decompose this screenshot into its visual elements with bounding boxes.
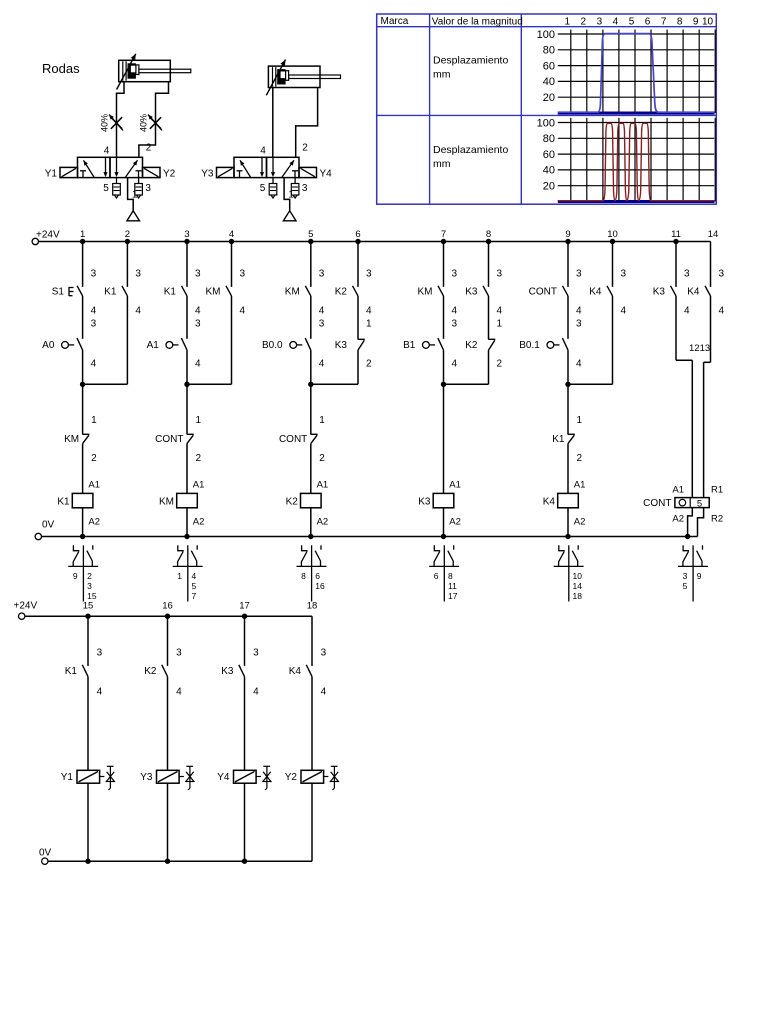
svg-text:4: 4: [240, 306, 246, 317]
svg-text:CONT: CONT: [155, 434, 183, 445]
svg-text:CONT: CONT: [643, 498, 671, 509]
svg-text:3: 3: [452, 269, 458, 280]
svg-text:1: 1: [497, 318, 503, 329]
rung numbers 15-18: [83, 601, 318, 612]
wire parallel branch join rung 6 to rung 5: [308, 350, 358, 387]
svg-text:0V: 0V: [39, 848, 52, 859]
table row divider: [377, 114, 717, 116]
wire cylinder1 right port to throttle V1b to valve port 2: [139, 82, 169, 158]
svg-text:5: 5: [308, 229, 313, 240]
5/2 solenoid valve 1 with solenoids Y1/Y2: [45, 157, 176, 179]
pneumatic cylinder 2 (right): [268, 66, 340, 87]
svg-text:Y2: Y2: [285, 772, 298, 783]
contact cross-reference for K2: [297, 545, 327, 601]
wire contact K1 to solenoid Y1: [87, 677, 89, 771]
svg-text:R2: R2: [711, 514, 723, 525]
svg-text:Y1: Y1: [61, 772, 74, 783]
svg-text:A1: A1: [449, 480, 461, 491]
svg-text:1: 1: [577, 415, 583, 426]
svg-text:40: 40: [543, 76, 555, 88]
relay contact CONT (rung 9, NO) with pins 3/4: [529, 242, 582, 317]
wire CONT R2 to 0V rail: [698, 508, 704, 537]
svg-text:K1: K1: [57, 497, 70, 508]
svg-text:3: 3: [240, 269, 246, 280]
svg-text:B0.1: B0.1: [519, 340, 540, 351]
svg-text:+24V: +24V: [36, 230, 60, 241]
relay contact K2 (NC) with pins 1/2: [465, 296, 502, 369]
svg-text:1: 1: [565, 16, 571, 27]
cylinder 1 stroke arrow: [117, 54, 136, 90]
wire rung 11 (K3) down to CONT coil A1: [676, 296, 692, 498]
wire cylinder2 right port to valve2 port 2: [296, 88, 318, 158]
svg-text:3: 3: [576, 318, 582, 329]
svg-text:10: 10: [702, 16, 714, 27]
svg-text:Marca: Marca: [381, 16, 409, 27]
svg-text:3: 3: [321, 648, 327, 659]
valve 1 ports 4/2/5/1/3, silencers and air supply: [103, 143, 152, 221]
svg-text:3: 3: [452, 318, 458, 329]
svg-text:9: 9: [565, 229, 570, 240]
svg-text:4: 4: [91, 306, 97, 317]
svg-text:4: 4: [719, 306, 725, 317]
relay contact KM (NC, series) with pins 1/2: [64, 384, 97, 493]
svg-text:A1: A1: [672, 484, 684, 495]
svg-text:3: 3: [97, 648, 103, 659]
svg-text:3: 3: [576, 269, 582, 280]
wire parallel branch join rung 8 to rung 7: [441, 350, 489, 387]
svg-text:4: 4: [497, 306, 503, 317]
chart time axis numbers 1-10: [565, 16, 714, 27]
proximity sensor contact B0.0 (NO) with pins 3/4: [262, 296, 325, 369]
table column divider 2: [520, 14, 522, 204]
contact cross-reference for K1: [68, 545, 98, 601]
chart 2 displacement curve (dark red oscillation): [558, 123, 714, 200]
svg-text:K4: K4: [289, 666, 302, 677]
svg-text:4: 4: [195, 358, 201, 369]
svg-text:1: 1: [366, 318, 372, 329]
proximity sensor contact B1 (NO) with pins 3/4: [403, 296, 457, 369]
rung numbers 1-11,14: [80, 229, 718, 240]
svg-text:18: 18: [307, 601, 318, 612]
svg-text:K2: K2: [286, 497, 299, 508]
svg-text:80: 80: [543, 133, 555, 145]
svg-text:K1: K1: [104, 287, 117, 298]
svg-text:9: 9: [73, 571, 78, 581]
svg-text:1: 1: [319, 415, 325, 426]
relay coil KM with pins A1/A2: [159, 480, 204, 537]
svg-text:A2: A2: [672, 514, 684, 525]
svg-text:2: 2: [91, 453, 97, 464]
table header text Valor de la magnitud: [432, 16, 523, 27]
svg-text:3: 3: [597, 16, 603, 27]
svg-text:K4: K4: [543, 497, 556, 508]
relay contact CONT (NC, series) with pins 1/2: [155, 384, 201, 493]
+24V supply rail (ladder 2): [14, 601, 313, 620]
svg-text:20: 20: [543, 92, 555, 104]
svg-text:7: 7: [661, 16, 667, 27]
svg-text:4: 4: [253, 686, 259, 697]
svg-text:Desplazamiento: Desplazamiento: [433, 55, 508, 67]
svg-text:5: 5: [103, 183, 109, 194]
relay contact K1 (NC, series) with pins 1/2: [552, 384, 582, 493]
chart 1 grid and axis labels: [537, 29, 716, 113]
svg-text:4: 4: [452, 306, 458, 317]
svg-text:4: 4: [366, 306, 372, 317]
svg-text:K4: K4: [687, 287, 700, 298]
throttle valve V1b 40% (right): [139, 114, 162, 132]
svg-text:4: 4: [613, 16, 619, 27]
svg-text:2: 2: [87, 571, 92, 581]
table header divider: [377, 26, 717, 28]
svg-text:3: 3: [366, 269, 372, 280]
relay contact K3 (NC) with pins 1/2: [335, 296, 372, 369]
proximity sensor contact B0.1 (NO) with pins 3/4: [519, 296, 582, 369]
relay contact K1 (rung 15, NO) with pins 3/4: [65, 616, 103, 697]
svg-text:3: 3: [621, 269, 627, 280]
svg-text:Y2: Y2: [163, 168, 176, 179]
svg-text:KM: KM: [285, 287, 300, 298]
svg-text:2: 2: [366, 358, 372, 369]
svg-text:17: 17: [448, 591, 458, 601]
solenoid coil Y4 with valve cross-reference: [217, 766, 271, 790]
svg-text:Y3: Y3: [201, 168, 214, 179]
svg-text:A2: A2: [574, 516, 586, 527]
svg-text:6: 6: [355, 229, 360, 240]
svg-text:S1: S1: [52, 287, 65, 298]
svg-text:K2: K2: [335, 287, 348, 298]
svg-text:60: 60: [543, 149, 555, 161]
+24V supply rail (ladder 1): [32, 230, 710, 245]
proximity sensor contact A1 (NO) with pins 3/4: [147, 296, 201, 369]
svg-text:3: 3: [184, 229, 189, 240]
svg-text:100: 100: [537, 29, 555, 41]
svg-text:3: 3: [135, 269, 141, 280]
counter coil CONT with pins A1/R1/A2/R2: [643, 484, 723, 524]
svg-text:40%: 40%: [100, 114, 110, 132]
svg-text:10: 10: [573, 571, 583, 581]
relay contact K2 (rung 6, NO) with pins 3/4: [335, 242, 372, 317]
svg-text:Y4: Y4: [217, 772, 230, 783]
contact cross-reference for K3: [429, 545, 459, 601]
svg-text:2: 2: [319, 453, 325, 464]
svg-text:3: 3: [319, 269, 325, 280]
svg-text:4: 4: [195, 306, 201, 317]
table column divider 1: [429, 14, 431, 204]
relay contact K1 (rung 2, NO) with pins 3/4: [104, 242, 141, 317]
valve 2 ports 4/2/5/1/3, silencers and air supply: [260, 143, 309, 221]
wire cylinder2 left port to valve2 port 4: [272, 88, 274, 158]
svg-text:3: 3: [91, 318, 97, 329]
relay contact K3 (rung 17, NO) with pins 3/4: [221, 616, 259, 697]
relay coil K1 with pins A1/A2: [57, 480, 100, 537]
svg-text:8: 8: [486, 229, 491, 240]
relay coil K4 with pins A1/A2: [543, 480, 586, 537]
svg-text:KM: KM: [159, 497, 174, 508]
svg-text:3: 3: [719, 269, 725, 280]
svg-text:17: 17: [239, 601, 250, 612]
svg-text:3: 3: [683, 571, 688, 581]
svg-text:3: 3: [145, 183, 151, 194]
svg-text:4: 4: [452, 358, 458, 369]
table row2 text Desplazamiento mm: [433, 144, 508, 170]
svg-text:3: 3: [195, 318, 201, 329]
relay contact KM (rung 4, NO) with pins 3/4: [206, 242, 246, 317]
svg-text:4: 4: [192, 571, 197, 581]
chart 1 displacement curve (blue trapezoid): [558, 34, 714, 113]
svg-text:A1: A1: [574, 480, 586, 491]
wire parallel branch join rung 2 to rung 1: [80, 296, 128, 387]
svg-text:4: 4: [576, 306, 582, 317]
wire contact K4 to solenoid Y2: [311, 677, 313, 771]
svg-text:4: 4: [97, 686, 103, 697]
svg-text:CONT: CONT: [279, 434, 307, 445]
svg-text:4: 4: [321, 686, 327, 697]
svg-text:4: 4: [260, 146, 266, 157]
svg-text:Y4: Y4: [320, 168, 333, 179]
svg-text:40: 40: [543, 165, 555, 177]
svg-text:Y1: Y1: [45, 168, 58, 179]
relay contact K3 (rung 11, NO) with pins 3/4: [653, 242, 690, 317]
svg-text:6: 6: [434, 571, 439, 581]
svg-text:100: 100: [537, 117, 555, 129]
svg-text:60: 60: [543, 60, 555, 72]
svg-text:R1: R1: [711, 484, 723, 495]
svg-text:1: 1: [91, 415, 97, 426]
svg-text:mm: mm: [433, 69, 451, 81]
svg-text:mm: mm: [433, 158, 451, 170]
svg-text:2: 2: [196, 453, 202, 464]
relay contact K4 (rung 14, NO) with pins 3/4: [687, 242, 724, 317]
svg-text:9: 9: [697, 571, 702, 581]
0V rail junction dots ladder 1: [80, 534, 690, 539]
svg-text:3: 3: [319, 318, 325, 329]
relay contact KM (rung 5, NO) with pins 3/4: [285, 242, 325, 317]
pushbutton contact S1 (rung 1, NO) with pins 3/4: [52, 242, 97, 317]
contact cross-reference for CONT: [678, 545, 708, 601]
cylinder 2 stroke arrow: [266, 60, 285, 96]
svg-text:3: 3: [253, 648, 259, 659]
svg-text:18: 18: [573, 591, 583, 601]
svg-text:K3: K3: [465, 287, 478, 298]
svg-text:2: 2: [581, 16, 587, 27]
wire solenoid Y3 to 0V rail: [167, 783, 169, 861]
svg-text:+24V: +24V: [14, 601, 38, 612]
svg-text:4: 4: [576, 358, 582, 369]
svg-text:1: 1: [177, 571, 182, 581]
svg-text:A2: A2: [88, 516, 100, 527]
wire contact K2 to solenoid Y3: [167, 677, 169, 771]
svg-text:3: 3: [176, 648, 182, 659]
table outer border: [377, 14, 717, 204]
svg-text:4: 4: [621, 306, 627, 317]
wire solenoid Y1 to 0V rail: [87, 783, 89, 861]
svg-text:K2: K2: [144, 666, 157, 677]
wire parallel branch join rung 4 to rung 3: [184, 296, 231, 387]
proximity sensor contact A0 (NO) with pins 3/4: [42, 296, 96, 369]
table row1 text Desplazamiento mm: [433, 55, 508, 81]
svg-text:2: 2: [125, 229, 130, 240]
wire rung 7 junction to coil K3: [443, 384, 445, 493]
svg-text:6: 6: [315, 571, 320, 581]
label Rodas: [42, 61, 80, 76]
relay contact K4 (rung 18, NO) with pins 3/4: [289, 616, 327, 697]
0V return rail (ladder 2): [39, 848, 312, 865]
relay coil K2 with pins A1/A2: [286, 480, 329, 537]
svg-text:1213: 1213: [689, 343, 710, 354]
relay contact K4 (rung 10, NO) with pins 3/4: [589, 242, 626, 317]
table header text Marca: [381, 16, 409, 27]
svg-text:3: 3: [497, 269, 503, 280]
pneumatic cylinder 1 (Rodas, left): [119, 60, 191, 81]
svg-text:7: 7: [192, 591, 197, 601]
contact cross-reference for KM: [173, 545, 203, 601]
svg-text:CONT: CONT: [529, 287, 557, 298]
svg-text:9: 9: [693, 16, 699, 27]
chart 2 zero baseline: [558, 200, 715, 203]
svg-text:3: 3: [302, 183, 308, 194]
node labels 12 13: [689, 343, 710, 354]
svg-text:A1: A1: [193, 480, 205, 491]
svg-text:8: 8: [677, 16, 683, 27]
svg-text:8: 8: [448, 571, 453, 581]
svg-text:7: 7: [441, 229, 446, 240]
svg-text:A2: A2: [317, 516, 329, 527]
svg-text:K3: K3: [335, 340, 348, 351]
relay contact K3 (rung 8, NO) with pins 3/4: [465, 242, 502, 317]
svg-text:1: 1: [196, 415, 202, 426]
rail junction dots ladder 1: [80, 239, 679, 244]
svg-text:B1: B1: [403, 340, 416, 351]
svg-text:2: 2: [302, 143, 308, 154]
relay coil K3 with pins A1/A2: [418, 480, 461, 537]
wire rung 14 (K4) down to CONT coil R1: [704, 296, 711, 498]
svg-text:6: 6: [645, 16, 651, 27]
svg-text:A0: A0: [42, 340, 55, 351]
svg-text:20: 20: [543, 181, 555, 193]
svg-text:11: 11: [448, 581, 457, 591]
svg-text:A1: A1: [147, 340, 160, 351]
svg-text:KM: KM: [418, 287, 433, 298]
svg-text:K3: K3: [221, 666, 234, 677]
relay contact KM (rung 7, NO) with pins 3/4: [418, 242, 458, 317]
svg-text:K1: K1: [164, 287, 177, 298]
0V rail junction dots ladder 2: [85, 859, 247, 864]
svg-text:40%: 40%: [139, 114, 149, 132]
0V return rail (ladder 1): [35, 520, 697, 540]
wire cylinder1 left port to throttle V1a to valve port 4: [117, 82, 125, 158]
svg-text:4: 4: [176, 686, 182, 697]
relay contact K2 (rung 16, NO) with pins 3/4: [144, 616, 182, 697]
svg-text:11: 11: [671, 229, 681, 240]
svg-text:16: 16: [162, 601, 173, 612]
svg-text:KM: KM: [206, 287, 221, 298]
svg-text:A1: A1: [317, 480, 329, 491]
svg-text:8: 8: [301, 571, 306, 581]
wire CONT A2 to 0V rail: [688, 508, 693, 537]
svg-text:16: 16: [315, 581, 325, 591]
svg-text:KM: KM: [64, 434, 79, 445]
wire solenoid Y4 to 0V rail: [244, 783, 246, 861]
svg-text:K4: K4: [589, 287, 602, 298]
svg-text:2: 2: [146, 143, 152, 154]
svg-text:80: 80: [543, 45, 555, 57]
solenoid coil Y3 with valve cross-reference: [140, 766, 194, 790]
wire solenoid Y2 to 0V rail: [311, 783, 313, 861]
svg-text:K3: K3: [653, 287, 666, 298]
relay contact CONT (NC, series) with pins 1/2: [279, 384, 325, 493]
chart 1 zero baseline: [558, 112, 715, 115]
svg-text:3: 3: [87, 581, 92, 591]
svg-text:K3: K3: [418, 497, 431, 508]
svg-text:Desplazamiento: Desplazamiento: [433, 144, 508, 156]
wire contact K3 to solenoid Y4: [244, 677, 246, 771]
relay contact K1 (rung 3, NO) with pins 3/4: [164, 242, 201, 317]
contact cross-reference for K4: [554, 545, 584, 601]
svg-text:4: 4: [684, 306, 690, 317]
svg-text:14: 14: [708, 229, 719, 240]
svg-text:4: 4: [229, 229, 234, 240]
svg-text:Y3: Y3: [140, 772, 153, 783]
svg-text:4: 4: [319, 358, 325, 369]
solenoid coil Y2 with valve cross-reference: [285, 766, 339, 790]
svg-text:2: 2: [497, 358, 503, 369]
svg-text:4: 4: [319, 306, 325, 317]
svg-text:14: 14: [573, 581, 583, 591]
svg-text:2: 2: [577, 453, 583, 464]
svg-text:5: 5: [260, 183, 266, 194]
wire parallel branch join rung 10 to rung 9: [565, 296, 612, 387]
svg-text:B0.0: B0.0: [262, 340, 283, 351]
svg-text:10: 10: [607, 229, 618, 240]
svg-text:3: 3: [91, 269, 97, 280]
svg-text:5: 5: [192, 581, 197, 591]
svg-text:15: 15: [87, 591, 97, 601]
rail junction dots ladder 2: [85, 614, 247, 619]
svg-text:5: 5: [697, 498, 702, 509]
svg-text:A2: A2: [449, 516, 461, 527]
svg-text:3: 3: [684, 269, 690, 280]
svg-text:K2: K2: [465, 340, 478, 351]
svg-text:5: 5: [683, 581, 688, 591]
svg-text:Valor de la magnitud: Valor de la magnitud: [432, 16, 523, 27]
svg-text:4: 4: [91, 358, 97, 369]
svg-text:0V: 0V: [42, 520, 55, 531]
svg-text:5: 5: [629, 16, 635, 27]
svg-text:3: 3: [195, 269, 201, 280]
svg-text:K1: K1: [552, 434, 565, 445]
solenoid coil Y1 with valve cross-reference: [61, 766, 115, 790]
svg-text:4: 4: [104, 146, 110, 157]
svg-text:15: 15: [83, 601, 94, 612]
svg-text:Rodas: Rodas: [42, 61, 80, 76]
5/2 solenoid valve 2 with solenoids Y3/Y4: [201, 157, 332, 179]
throttle valve V1a 40% (left): [100, 114, 123, 132]
chart 2 grid and axis labels: [537, 117, 716, 201]
svg-text:1: 1: [80, 229, 85, 240]
svg-text:K1: K1: [65, 666, 78, 677]
svg-text:A1: A1: [88, 480, 100, 491]
svg-text:4: 4: [135, 306, 141, 317]
svg-text:A2: A2: [193, 516, 205, 527]
